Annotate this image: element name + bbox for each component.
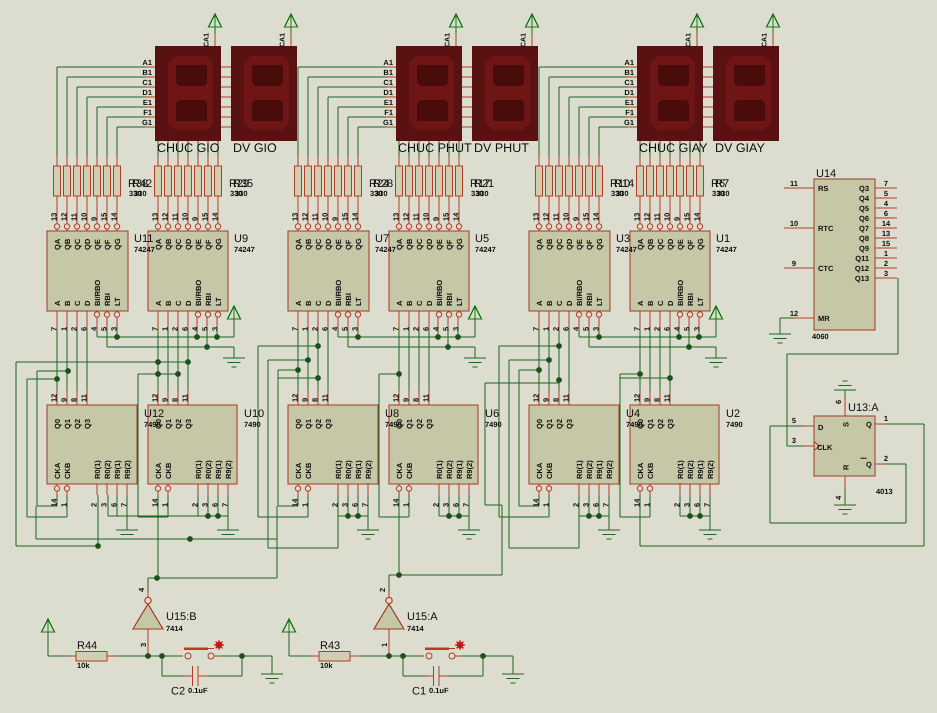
svg-text:5: 5 (884, 189, 888, 198)
svg-text:1: 1 (301, 503, 310, 507)
svg-text:QD: QD (324, 238, 333, 250)
svg-text:11: 11 (311, 213, 320, 221)
wire resistor R21.3 to decoder (419, 196, 420, 231)
wire U10 Q0 stub (158, 390, 159, 405)
svg-text:CA1: CA1 (686, 33, 693, 47)
wire R9 join (338, 516, 368, 517)
svg-text:Q3: Q3 (83, 419, 92, 429)
wire U2 R0(2) stub (690, 484, 691, 495)
svg-text:C: C (73, 300, 82, 306)
ground RBI bus (705, 358, 727, 359)
svg-text:BI/RBO: BI/RBO (575, 280, 584, 306)
svg-text:RBI: RBI (686, 293, 695, 306)
wire U6 R0(1) stub (439, 484, 440, 495)
wire stub display 4 segment 1 (462, 77, 472, 78)
pin circle 9 (195, 224, 200, 229)
power CA1 arrow display 1 (209, 14, 222, 27)
svg-text:9: 9 (673, 217, 682, 221)
wire R0 feedback loop (258, 346, 259, 517)
svg-text:QC: QC (174, 238, 183, 250)
svg-text:R9(2): R9(2) (224, 460, 233, 479)
wire BCD line (318, 311, 319, 330)
svg-text:2: 2 (412, 327, 421, 331)
svg-text:U11: U11 (134, 233, 153, 245)
decade counter U10 7490 (148, 405, 237, 484)
clock mark (814, 442, 820, 451)
svg-text:R9(2): R9(2) (364, 460, 373, 479)
pin circle 13 (536, 224, 541, 229)
pin circle (687, 312, 692, 317)
ground counter reset (458, 530, 480, 531)
pin circle 9 (677, 224, 682, 229)
svg-text:QE: QE (334, 239, 343, 250)
pin circle CKA (637, 486, 642, 491)
wire C2 right side (198, 676, 208, 677)
wire segment D1 display 3 (328, 97, 386, 98)
svg-text:5: 5 (683, 327, 692, 331)
wire BCD line (429, 311, 430, 330)
svg-text:74247: 74247 (475, 245, 496, 254)
wire segment A1 display 3 (298, 67, 386, 68)
wire BCD line (158, 311, 159, 330)
wire U12 Q2 stub (77, 390, 78, 405)
svg-text:Q11: Q11 (855, 254, 869, 263)
svg-text:7: 7 (602, 503, 611, 507)
svg-text:A: A (395, 300, 404, 306)
svg-text:11: 11 (70, 213, 79, 221)
wire CKA loop (519, 370, 520, 506)
svg-text:QA: QA (395, 238, 404, 250)
svg-text:Q3: Q3 (565, 419, 574, 429)
svg-text:D1: D1 (383, 88, 393, 97)
svg-text:QF: QF (103, 239, 112, 250)
wire resistor R14.5 to decoder (579, 196, 580, 231)
resistor R14 element 2 (546, 166, 553, 196)
pin circle 11 (315, 224, 320, 229)
svg-text:9: 9 (161, 398, 170, 402)
svg-text:R0(1): R0(1) (194, 460, 203, 479)
power arrow R43 (283, 619, 296, 632)
svg-text:7: 7 (50, 327, 59, 331)
svg-text:12: 12 (50, 394, 59, 402)
svg-text:U7: U7 (375, 233, 389, 245)
resistor R35 element 4 (185, 166, 192, 196)
wire display 3 bottom pin 5 (449, 141, 450, 156)
wire U8 CKA stub (298, 484, 299, 495)
wire U4 Q3 stub (569, 390, 570, 405)
BCD decoder U11 74247 (47, 231, 128, 311)
svg-text:13: 13 (532, 213, 541, 221)
ground U14 MR (769, 334, 791, 335)
wire resistor R28.1 to decoder (298, 196, 299, 231)
svg-text:Q12: Q12 (855, 264, 869, 273)
svg-text:F1: F1 (384, 108, 393, 117)
pin circle 12 (546, 224, 551, 229)
resistor R21 element 3 (416, 166, 423, 196)
svg-text:7414: 7414 (407, 624, 425, 633)
svg-text:LT: LT (696, 297, 705, 306)
pin circle 10 (566, 224, 571, 229)
ground near C1 (502, 674, 524, 675)
wire U8 Q1 stub (308, 390, 309, 405)
svg-text:1: 1 (542, 503, 551, 507)
svg-text:10: 10 (790, 219, 798, 228)
svg-text:U6: U6 (485, 408, 499, 420)
wire resistor R35.1 to decoder (158, 196, 159, 231)
svg-text:QB: QB (405, 238, 414, 250)
BCD decoder U5 74247 (389, 231, 469, 311)
svg-text:D: D (324, 300, 333, 306)
wire BCD line (298, 311, 299, 330)
svg-text:1: 1 (884, 414, 888, 423)
svg-text:A: A (636, 300, 645, 306)
power CA1 arrow display 2 (285, 14, 298, 27)
svg-text:0.1uF: 0.1uF (429, 686, 449, 695)
svg-text:13: 13 (291, 213, 300, 221)
svg-text:8: 8 (171, 398, 180, 402)
svg-text:DV PHUT: DV PHUT (474, 141, 529, 155)
pin MR U14 (784, 318, 814, 319)
svg-text:R43: R43 (320, 640, 340, 652)
resistor R42 element 1 (54, 166, 61, 196)
push button near C2 (184, 648, 208, 651)
pin Q8 U14 (875, 238, 897, 239)
wire U8 R9(1) stub (358, 484, 359, 495)
power arrow blanking (228, 306, 241, 319)
svg-text:C: C (656, 300, 665, 306)
pin circle (335, 312, 340, 317)
pin circle (195, 312, 200, 317)
svg-text:CKA: CKA (294, 462, 303, 479)
pin circle CKB (406, 486, 411, 491)
svg-text:QB: QB (63, 238, 72, 250)
wire stub display 2 segment 3 (221, 97, 231, 98)
wire BCD line (57, 311, 58, 330)
svg-text:11: 11 (562, 394, 571, 402)
wire stub display 6 segment 4 (703, 107, 713, 108)
pin circle CKA (155, 486, 160, 491)
wire RBI ground drop (475, 347, 476, 358)
svg-text:Q4: Q4 (859, 194, 870, 203)
resistor R21 element 2 (406, 166, 413, 196)
wire stub display 6 segment 2 (703, 87, 713, 88)
svg-text:1: 1 (643, 327, 652, 331)
wire display 3 bottom pin 1 (409, 141, 410, 156)
wire segment F1 display 1 (107, 117, 145, 118)
svg-text:F1: F1 (143, 108, 152, 117)
resistor R7 element 5 (677, 166, 684, 196)
svg-text:10k: 10k (77, 661, 90, 670)
svg-text:74247: 74247 (616, 245, 637, 254)
resistor R28 element 6 (345, 166, 352, 196)
wire BI/RBO riser (97, 311, 98, 330)
pin RS U14 (784, 188, 814, 189)
svg-text:7490: 7490 (485, 420, 502, 429)
svg-text:11: 11 (412, 213, 421, 221)
pin circle 14 (456, 224, 461, 229)
wire U2 Q2 stub (660, 390, 661, 405)
svg-text:S: S (842, 422, 851, 427)
resistor R42 element 4 (84, 166, 91, 196)
svg-text:RBI: RBI (103, 293, 112, 306)
svg-text:12: 12 (633, 394, 642, 402)
svg-text:Q0: Q0 (53, 419, 62, 429)
wire LT riser (217, 311, 218, 330)
wire U4 R9(2) stub (609, 484, 610, 495)
svg-text:9: 9 (792, 259, 796, 268)
resistor R35 element 1 (155, 166, 162, 196)
svg-text:R0(1): R0(1) (435, 460, 444, 479)
svg-text:B: B (164, 300, 173, 306)
wire RBI ground drop (234, 347, 235, 358)
resistor R7 element 6 (687, 166, 694, 196)
svg-text:CKA: CKA (395, 462, 404, 479)
pin circle 11 (416, 224, 421, 229)
wire resistor R42.4 to decoder (87, 196, 88, 231)
svg-text:QF: QF (445, 239, 454, 250)
svg-text:2: 2 (191, 503, 200, 507)
svg-text:A: A (535, 300, 544, 306)
wire resistor R42.7 to decoder (117, 196, 118, 231)
svg-text:2: 2 (331, 503, 340, 507)
svg-text:7: 7 (462, 503, 471, 507)
svg-text:5: 5 (442, 327, 451, 331)
svg-text:14: 14 (882, 219, 891, 228)
svg-text:2: 2 (572, 503, 581, 507)
resistor R35 element 3 (175, 166, 182, 196)
svg-text:R0(1): R0(1) (676, 460, 685, 479)
svg-text:6: 6 (181, 327, 190, 331)
wire U15:A input pin (389, 629, 390, 656)
wire stub display 4 segment 0 (462, 67, 472, 68)
pin circle 11 (74, 224, 79, 229)
wire U6 Q0 stub (399, 390, 400, 405)
pin Q13 U14 (875, 278, 897, 279)
svg-text:12: 12 (151, 394, 160, 402)
wire blanking bus (579, 337, 716, 338)
wire U10 R0(1) stub (198, 484, 199, 495)
svg-text:330: 330 (717, 189, 730, 198)
svg-text:2: 2 (171, 327, 180, 331)
svg-text:6: 6 (321, 327, 330, 331)
wire display 5 bottom pin 1 (650, 141, 651, 156)
svg-text:13: 13 (50, 213, 59, 221)
pin circle 13 (54, 224, 59, 229)
svg-text:10: 10 (80, 213, 89, 221)
svg-text:14: 14 (392, 498, 401, 507)
pin Q3 U14 (875, 188, 897, 189)
svg-text:4013: 4013 (876, 487, 893, 496)
svg-text:7: 7 (532, 327, 541, 331)
svg-text:14: 14 (592, 212, 601, 221)
svg-text:QD: QD (565, 238, 574, 250)
svg-text:QA: QA (535, 238, 544, 250)
wire resistor R35.3 to decoder (178, 196, 179, 231)
BCD decoder U3 74247 (529, 231, 610, 311)
svg-text:LT: LT (214, 297, 223, 306)
svg-text:CKA: CKA (154, 462, 163, 479)
wire resistor R7.3 to decoder (660, 196, 661, 231)
wire resistor R21.5 to decoder (439, 196, 440, 231)
wire U2 Q1 stub (650, 390, 651, 405)
wire node to capacitor C2 (162, 656, 163, 676)
svg-text:U8: U8 (385, 408, 399, 420)
svg-text:RBI: RBI (445, 293, 454, 306)
wire segment F1 display 3 (348, 117, 386, 118)
svg-text:MR: MR (818, 314, 830, 323)
svg-text:14: 14 (50, 498, 59, 507)
wire U12 Q3 stub (87, 390, 88, 405)
svg-text:Q2: Q2 (314, 419, 323, 429)
wire U8 R9(2) stub (368, 484, 369, 495)
power arrow R44 (42, 619, 55, 632)
power CA1 arrow display 6 (767, 14, 780, 27)
svg-text:BI/RBO: BI/RBO (93, 280, 102, 306)
svg-text:QA: QA (294, 238, 303, 250)
wire display 5 bottom pin 6 (700, 141, 701, 156)
svg-text:CKA: CKA (53, 462, 62, 479)
pin circle 10 (325, 224, 330, 229)
svg-text:11: 11 (663, 394, 672, 402)
svg-text:2: 2 (884, 259, 888, 268)
svg-text:U15:A: U15:A (407, 611, 438, 623)
svg-text:B: B (405, 300, 414, 306)
svg-text:10: 10 (663, 213, 672, 221)
svg-text:QA: QA (154, 238, 163, 250)
decade counter U4 7490 (529, 405, 619, 484)
svg-text:U2: U2 (726, 408, 740, 420)
wire BCD line (188, 311, 189, 330)
pin Q7 U14 (875, 228, 897, 229)
svg-text:5: 5 (792, 416, 796, 425)
resistor R28 element 1 (295, 166, 302, 196)
pin circle 14 (355, 224, 360, 229)
wire U8 R0(1) stub (338, 484, 339, 495)
wire display 3 bottom pin 4 (439, 141, 440, 156)
svg-text:CA1: CA1 (762, 33, 769, 47)
wire BCD line (670, 311, 671, 330)
svg-text:6: 6 (693, 503, 702, 507)
svg-text:U13:A: U13:A (848, 402, 879, 414)
resistor R14 element 7 (596, 166, 603, 196)
wire U12 R9(2) stub (127, 484, 128, 495)
svg-text:11: 11 (422, 394, 431, 402)
wire U6 Q1 stub (409, 390, 410, 405)
resistor R42 element 6 (104, 166, 111, 196)
pin RTC U14 (784, 228, 814, 229)
svg-text:A1: A1 (142, 58, 152, 67)
wire R9 join (680, 516, 710, 517)
wire resistor R42.1 to decoder (57, 196, 58, 231)
svg-text:QD: QD (83, 238, 92, 250)
pin CTC U14 (784, 268, 814, 269)
wire CKB loop (268, 360, 269, 517)
svg-text:2: 2 (432, 503, 441, 507)
pin circle CKB (647, 486, 652, 491)
svg-text:C: C (314, 300, 323, 306)
svg-text:2: 2 (673, 503, 682, 507)
svg-text:D1: D1 (142, 88, 152, 97)
svg-text:9: 9 (60, 398, 69, 402)
svg-text:6: 6 (834, 400, 843, 404)
ground inverted at S (843, 381, 848, 382)
wire resistor R42.2 to decoder (67, 196, 68, 231)
svg-text:7: 7 (703, 503, 712, 507)
ground counter reset (699, 530, 721, 531)
wire BCD line (328, 311, 329, 330)
pin circle 14 (697, 224, 702, 229)
pin circle 9 (335, 224, 340, 229)
pin circle (114, 312, 119, 317)
resistor R7 element 7 (697, 166, 704, 196)
capacitor C2 0.1uF (192, 666, 193, 686)
svg-text:B1: B1 (383, 68, 393, 77)
pin Q11 U14 (875, 258, 897, 259)
resistor R7 element 1 (637, 166, 644, 196)
wire R9 join (198, 516, 228, 517)
wire stub display 6 segment 5 (703, 117, 713, 118)
wire U15:B input pin (148, 629, 149, 656)
svg-text:14: 14 (351, 212, 360, 221)
pin circle 12 (64, 224, 69, 229)
pin circle 9 (576, 224, 581, 229)
resistor R42 element 3 (74, 166, 81, 196)
bubble U15:A (386, 597, 392, 603)
svg-text:Q1: Q1 (63, 419, 72, 429)
wire resistor R14.4 to decoder (569, 196, 570, 231)
button pins (185, 653, 191, 659)
svg-text:DV GIO: DV GIO (233, 141, 277, 155)
pin circle (697, 312, 702, 317)
ground counter reset (357, 530, 379, 531)
wire BCD line (419, 311, 420, 330)
svg-text:5: 5 (201, 327, 210, 331)
svg-text:Q2: Q2 (555, 419, 564, 429)
pin circle CKA (536, 486, 541, 491)
wire U2 Q0 stub (640, 390, 641, 405)
wire CA feed display 4 (532, 34, 533, 46)
wire BI/RBO riser (679, 311, 680, 330)
svg-text:11: 11 (790, 179, 798, 188)
svg-text:QF: QF (585, 239, 594, 250)
svg-text:8: 8 (311, 398, 320, 402)
wire segment D1 display 1 (87, 97, 145, 98)
wire resistor R42.3 to decoder (77, 196, 78, 231)
wire stub display 2 segment 2 (221, 87, 231, 88)
wire minutes-set net U15:A to U6 CKA (389, 575, 502, 576)
pin circle 11 (556, 224, 561, 229)
svg-text:3: 3 (201, 503, 210, 507)
svg-text:CLK: CLK (817, 443, 833, 452)
svg-text:Q6: Q6 (859, 214, 869, 223)
wire segment E1 display 3 (338, 107, 386, 108)
svg-text:QD: QD (184, 238, 193, 250)
svg-text:14: 14 (532, 498, 541, 507)
svg-text:8: 8 (653, 398, 662, 402)
wire display 1 bottom pin 5 (208, 141, 209, 156)
pin circle 11 (657, 224, 662, 229)
svg-text:QC: QC (555, 238, 564, 250)
decade counter U2 7490 (630, 405, 719, 484)
wire segment E1 display 1 (97, 107, 145, 108)
pin circle CKB (64, 486, 69, 491)
svg-text:E1: E1 (143, 98, 152, 107)
svg-text:1: 1 (643, 503, 652, 507)
wire RBI ground drop (716, 347, 717, 358)
svg-text:Q3: Q3 (859, 184, 869, 193)
resistor R35 element 5 (195, 166, 202, 196)
pin circle 13 (637, 224, 642, 229)
